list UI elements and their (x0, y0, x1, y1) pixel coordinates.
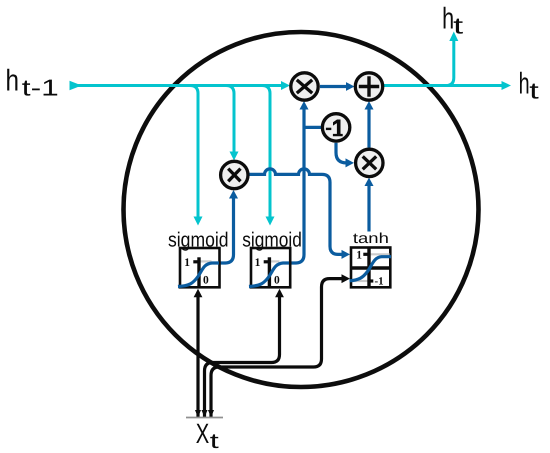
tanh unit box (351, 248, 390, 288)
adder node (355, 73, 382, 100)
svg-text:-1: -1 (375, 276, 384, 288)
arrowhead into multiply X2 bottom (229, 190, 238, 199)
svg-text:0: 0 (203, 274, 209, 286)
arrowhead into tanh left upper (342, 250, 351, 259)
arrowhead into multiply X1 bottom (300, 101, 309, 110)
svg-text:X: X (196, 418, 210, 449)
arrowhead into adder (346, 82, 355, 91)
svg-text:t: t (453, 13, 464, 39)
arrowhead into tanh left lower (342, 274, 351, 283)
wire h(t) horizontal right segment (384, 84, 502, 87)
wire h(t) up branch (446, 41, 454, 86)
svg-text:sigmoid: sigmoid (242, 228, 301, 251)
wire x(t) to sigmoid 1 (196, 293, 199, 417)
arrowhead x(t) wire 1 bottom (195, 410, 201, 418)
tanh gray asymptote top (370, 253, 390, 255)
sigmoid 1 axis (197, 257, 200, 287)
svg-text:0: 0 (274, 274, 280, 286)
arrowhead into multiply X3 left (346, 158, 355, 167)
wire h(t-1) main horizontal left segment (72, 84, 282, 87)
wire drop to sigmoid gate 2 (262, 86, 270, 217)
arrowhead into adder bottom (365, 101, 374, 110)
arrowhead into multiply X2 (230, 152, 239, 161)
multiply node X1 (update gate x h(t-1)) (291, 73, 318, 100)
sigmoid 2 curve inside box (249, 263, 289, 287)
sigmoid 1 response curve and output wire to X2 (178, 196, 234, 287)
arrowhead x(t) wire 2 bottom (202, 410, 208, 418)
multiply node X3 (candidate x (1-z)) (356, 149, 383, 176)
sigmoid 2 tick level 1 (264, 260, 270, 263)
wire drop to multiply X2 (226, 86, 234, 152)
arrowhead h(t) up output (449, 32, 458, 42)
x(t) baseline tick (186, 417, 223, 419)
sigmoid 2 axis (268, 257, 271, 287)
svg-text:t-1: t-1 (22, 74, 59, 100)
arrowhead into sigmoid 2 label (266, 217, 275, 226)
sigmoid 1 curve inside box (178, 263, 219, 287)
wire multiply X2 output to tanh with hops (250, 169, 344, 255)
tanh tick level 1 (363, 253, 369, 256)
arrowhead into multiply X3 bottom (365, 178, 374, 187)
wire x(t) to tanh (211, 279, 343, 418)
wire x(t) to sigmoid 2 (205, 296, 280, 418)
svg-text:h: h (6, 65, 20, 98)
svg-text:h: h (519, 68, 530, 101)
wire tanh output to multiply X3 (367, 184, 370, 232)
tanh curve inside box (350, 257, 392, 281)
wire multiply X1 to adder (320, 85, 348, 88)
svg-text:t: t (210, 430, 219, 453)
svg-text:1: 1 (184, 257, 190, 269)
svg-text:1: 1 (255, 257, 261, 269)
wire branch to -1 node (304, 126, 321, 129)
svg-text:tanh: tanh (353, 231, 389, 247)
minus-one node (322, 114, 349, 141)
svg-text:sigmoid: sigmoid (168, 228, 229, 251)
tanh tick level -1 (369, 279, 373, 282)
svg-text:1: 1 (356, 250, 362, 262)
tanh horizontal axis (351, 266, 390, 269)
arrowhead into sigmoid 1 bottom (194, 289, 203, 298)
arrowhead into sigmoid 1 label (194, 217, 203, 226)
tanh gray asymptote bottom (352, 280, 368, 282)
wire -1 node to multiply X3 (336, 143, 347, 163)
wire multiply X3 to adder (367, 109, 370, 148)
multiply node X2 (reset gate x h(t-1)) (221, 161, 248, 188)
sigmoid unit 2 box (251, 248, 290, 287)
sigmoid 2 gray asymptote (271, 260, 280, 262)
tanh vertical axis (367, 248, 370, 288)
wire h(t-1) start tick (70, 81, 79, 90)
arrowhead into sigmoid 2 bottom (275, 289, 284, 298)
arrowhead h(t) right output (502, 81, 512, 90)
arrowhead x(t) wire 3 bottom (208, 410, 214, 418)
sigmoid 1 tick level 1 (193, 260, 199, 263)
sigmoid 1 gray asymptote (200, 260, 212, 262)
wire drop to sigmoid gate 1 (190, 86, 198, 217)
svg-text:t: t (529, 77, 539, 103)
sigmoid 2 response curve and output wire to X1 (249, 108, 304, 287)
arrowhead into multiply X1 (281, 81, 290, 90)
GRU cell boundary circle (124, 32, 479, 387)
sigmoid unit 1 box (180, 248, 220, 287)
